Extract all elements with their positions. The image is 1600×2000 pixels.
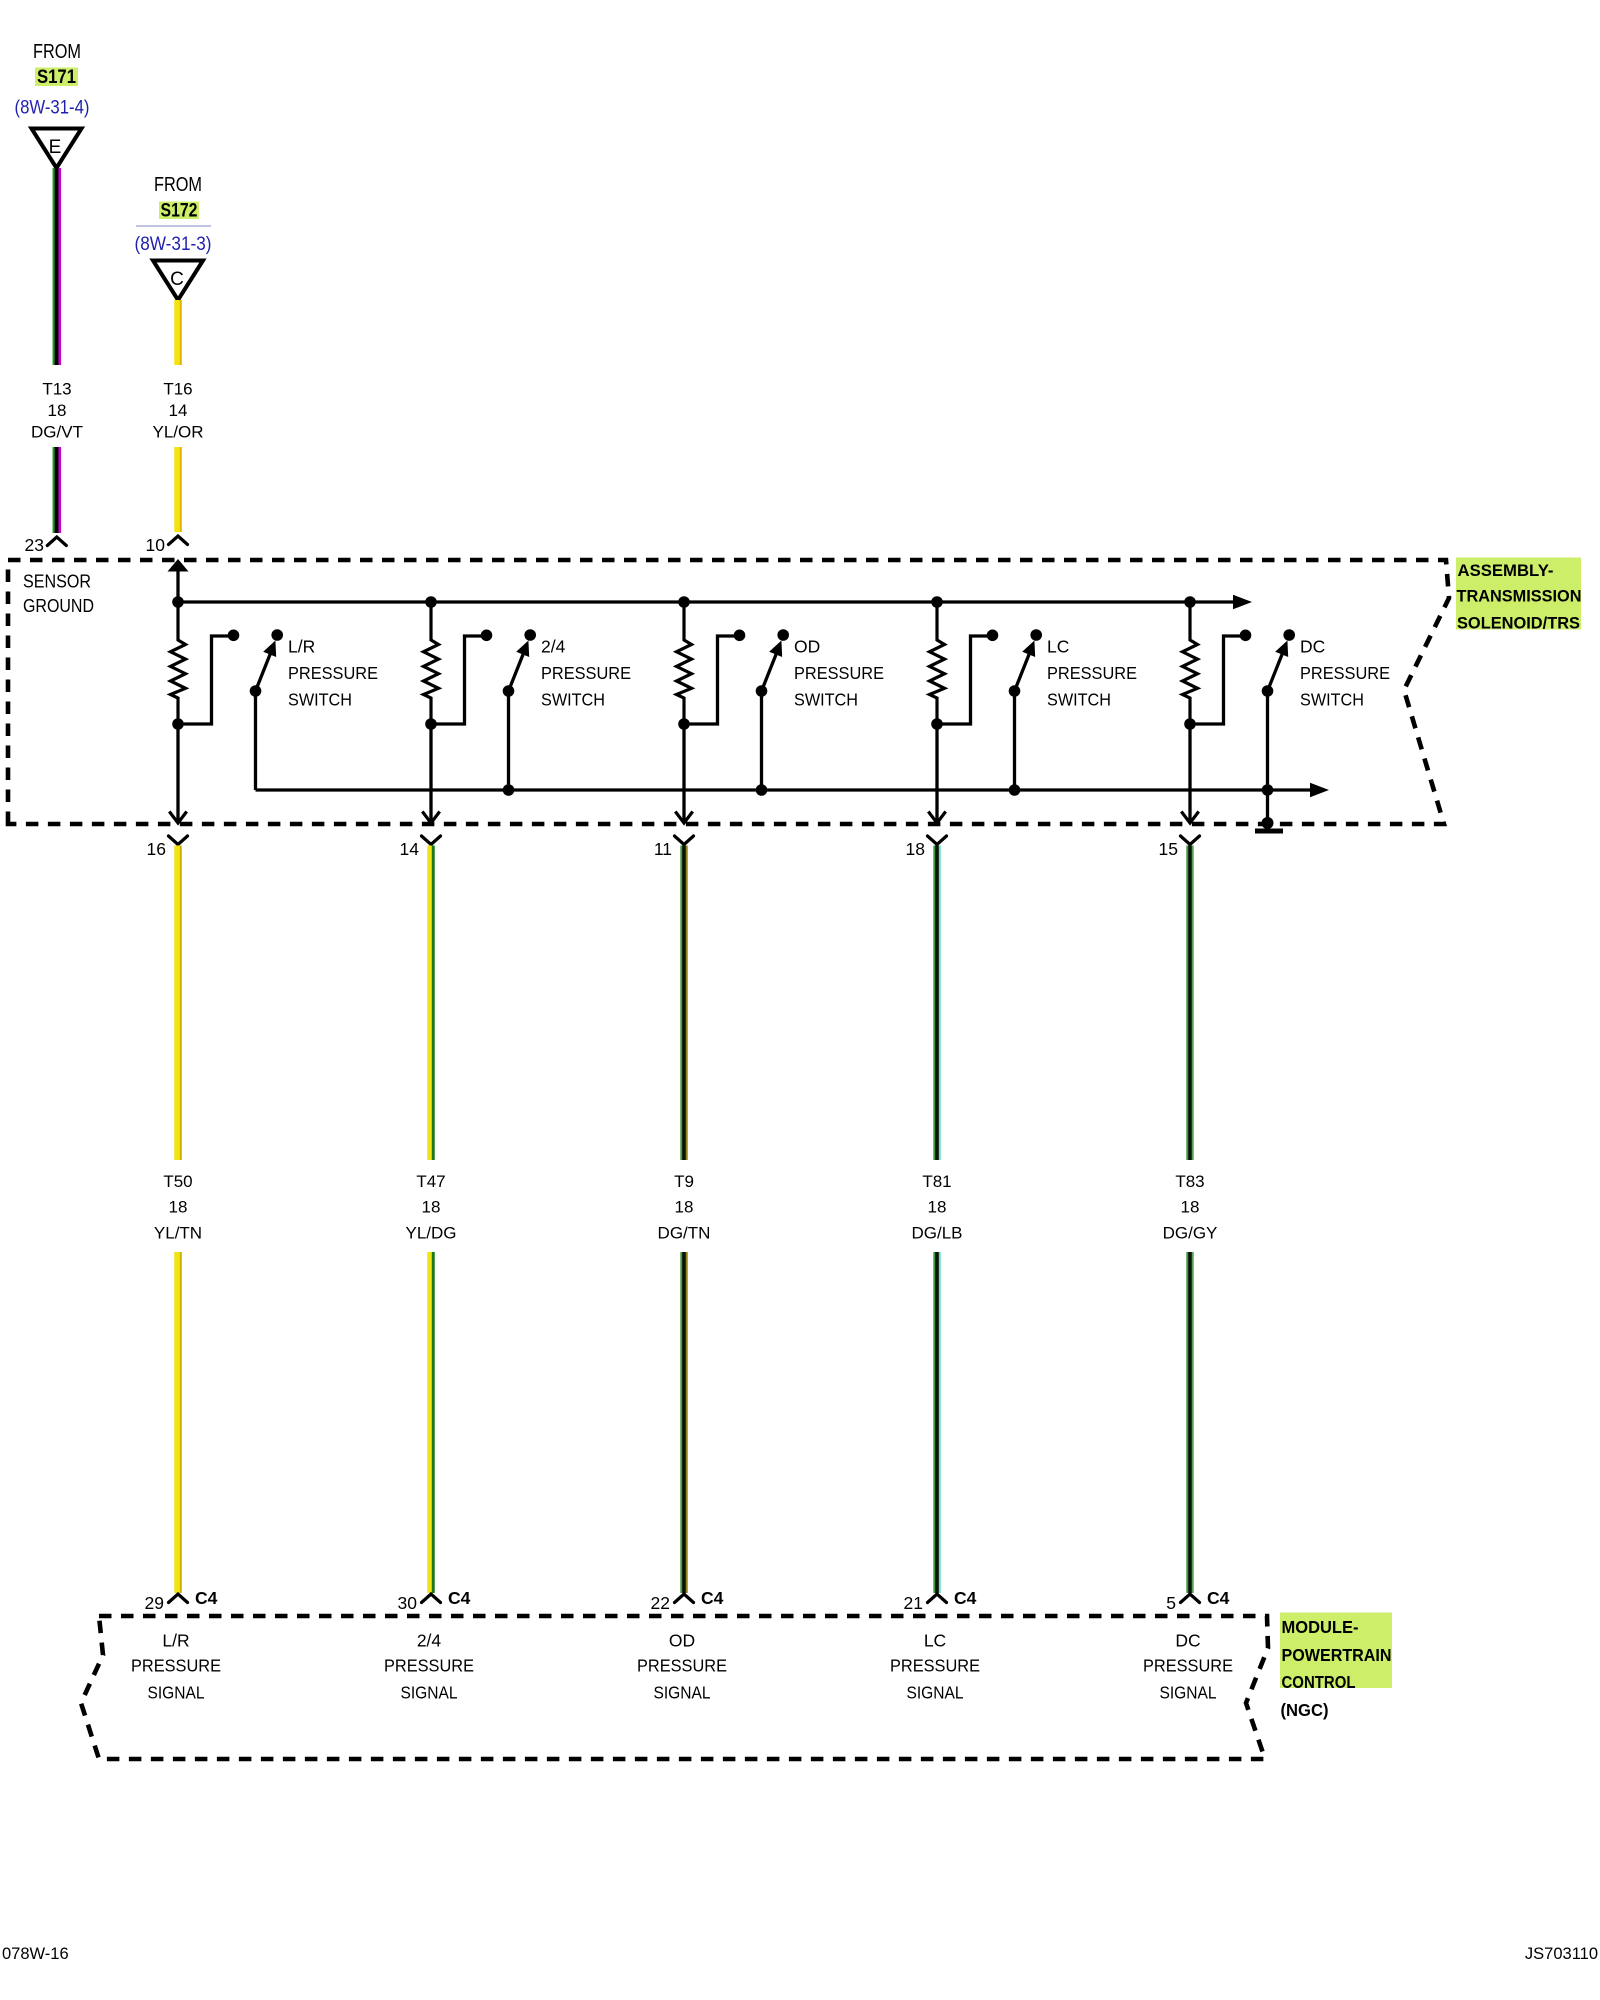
svg-text:OD: OD	[794, 637, 820, 657]
wire resistor bottom to box edge col 3 with exit arrow	[675, 724, 692, 823]
connector label C4 col 4	[954, 1588, 977, 1608]
PCM pin connector fork col 5	[1181, 1594, 1200, 1603]
svg-text:T9: T9	[674, 1172, 694, 1191]
junction node top bus col 4	[931, 596, 943, 608]
svg-text:14: 14	[400, 839, 420, 859]
svg-text:YL/TN: YL/TN	[154, 1224, 202, 1243]
pin label 21	[904, 1593, 923, 1613]
svg-text:GROUND: GROUND	[23, 595, 94, 616]
pin label 5	[1166, 1593, 1176, 1613]
svg-text:14: 14	[169, 401, 188, 420]
wire pivot to lower bus col 2	[507, 691, 510, 790]
ground bar	[1255, 829, 1283, 834]
signal label LC PRESSURE SIGNAL	[890, 1631, 980, 1703]
wire T50 YL/TN lower segment	[174, 1252, 182, 1593]
switch pivot contact col 3	[756, 685, 768, 697]
svg-text:DC: DC	[1300, 637, 1325, 657]
label OD PRESSURE SWITCH	[794, 637, 884, 710]
switch throw contact col 2	[524, 629, 536, 641]
switch pivot contact col 5	[1262, 685, 1274, 697]
switch DC PRESSURE SWITCH contact wire	[1190, 636, 1242, 724]
wire pivot to lower bus col 4	[1013, 691, 1016, 790]
svg-text:S171: S171	[37, 66, 76, 88]
junction node resistor bottom col 1	[172, 718, 184, 730]
svg-text:JS703110: JS703110	[1525, 1945, 1598, 1963]
top bus wire (sensor ground)	[178, 595, 1252, 609]
svg-text:SWITCH: SWITCH	[794, 690, 858, 710]
svg-text:SIGNAL: SIGNAL	[654, 1683, 711, 1703]
svg-text:PRESSURE: PRESSURE	[890, 1656, 980, 1676]
svg-text:SWITCH: SWITCH	[1300, 690, 1364, 710]
wire T50 YL/TN upper segment	[174, 846, 182, 1161]
svg-text:2/4: 2/4	[541, 637, 566, 657]
switch pivot contact col 2	[503, 685, 515, 697]
underline below S172	[136, 225, 211, 227]
resistor R3 (OD pressure sense)	[677, 602, 692, 724]
svg-text:PRESSURE: PRESSURE	[637, 1656, 727, 1676]
svg-text:T13: T13	[42, 380, 71, 399]
exit connector fork col 4	[928, 836, 947, 845]
svg-text:PRESSURE: PRESSURE	[541, 663, 631, 683]
reference (8W-31-3)	[135, 234, 212, 255]
svg-text:(NGC): (NGC)	[1281, 1700, 1329, 1720]
svg-text:S172: S172	[161, 200, 198, 222]
wire entry arrow into box (sensor ground feed)	[168, 559, 189, 602]
svg-text:10: 10	[146, 535, 166, 555]
svg-text:22: 22	[651, 1593, 670, 1613]
switch LC PRESSURE SWITCH contact wire	[937, 636, 989, 724]
splice S171 (highlighted)	[35, 66, 78, 88]
svg-text:PRESSURE: PRESSURE	[1300, 663, 1390, 683]
label DC PRESSURE SWITCH	[1300, 637, 1390, 710]
wire T9 DG/TN upper segment	[680, 846, 687, 1161]
svg-text:YL/OR: YL/OR	[152, 423, 203, 442]
switch arm with arrowhead col 2	[509, 641, 530, 692]
wire label T13 18 DG/VT	[31, 380, 83, 442]
svg-text:PRESSURE: PRESSURE	[1047, 663, 1137, 683]
switch throw contact col 5	[1283, 629, 1295, 641]
wire resistor bottom to box edge col 1 with exit arrow	[169, 724, 186, 823]
label L/R PRESSURE SWITCH	[288, 637, 378, 710]
svg-text:DG/VT: DG/VT	[31, 423, 83, 442]
junction node resistor bottom col 2	[425, 718, 437, 730]
resistor R2 (2/4 pressure sense)	[424, 602, 439, 724]
svg-text:21: 21	[904, 1593, 923, 1613]
dashed box assembly-transmission solenoid/TRS	[8, 560, 1449, 824]
connector triangle E	[32, 129, 82, 169]
junction node top bus col 2	[425, 596, 437, 608]
svg-text:18: 18	[928, 1198, 947, 1217]
svg-text:29: 29	[145, 1593, 164, 1613]
signal label 2/4 PRESSURE SIGNAL	[384, 1631, 474, 1703]
label LC PRESSURE SWITCH	[1047, 637, 1137, 710]
switch arm with arrowhead col 4	[1015, 641, 1036, 692]
exit connector fork col 5	[1181, 836, 1200, 845]
resistor R1 (L/R pressure sense)	[171, 602, 186, 724]
svg-text:18: 18	[675, 1198, 694, 1217]
wire T16 YL/OR lower segment	[174, 447, 182, 532]
svg-text:18: 18	[906, 839, 925, 859]
PCM pin connector fork col 3	[675, 1594, 694, 1603]
svg-text:PRESSURE: PRESSURE	[131, 1656, 221, 1676]
wire T81 DG/LB upper segment	[933, 846, 940, 1161]
pin label 15 at box exit col 5	[1159, 839, 1178, 859]
svg-text:SWITCH: SWITCH	[541, 690, 605, 710]
switch fixed contact col 1	[228, 630, 240, 642]
junction node lower bus col 5	[1262, 784, 1274, 796]
svg-text:C: C	[170, 269, 184, 290]
svg-text:C4: C4	[195, 1588, 218, 1608]
svg-text:C4: C4	[448, 1588, 471, 1608]
svg-text:18: 18	[1181, 1198, 1200, 1217]
junction node resistor bottom col 3	[678, 718, 690, 730]
wire label T47 18 YL/DG	[405, 1172, 456, 1243]
svg-text:OD: OD	[669, 1631, 695, 1651]
svg-text:T47: T47	[416, 1172, 445, 1191]
svg-text:(8W-31-4): (8W-31-4)	[15, 98, 90, 119]
dashed box module-powertrain control	[81, 1616, 1268, 1759]
exit connector fork col 2	[422, 836, 441, 845]
drawing number JS703110	[1525, 1945, 1598, 1963]
svg-text:30: 30	[398, 1593, 418, 1613]
pin label 11 at box exit col 3	[654, 839, 672, 859]
svg-text:T81: T81	[922, 1172, 951, 1191]
pin label 30	[398, 1593, 418, 1613]
svg-text:18: 18	[422, 1198, 441, 1217]
wire T47 YL/DG upper segment	[427, 846, 435, 1161]
switch arm with arrowhead col 5	[1268, 641, 1289, 692]
pin label 18 at box exit col 4	[906, 839, 925, 859]
wire label T50 18 YL/TN	[154, 1172, 202, 1243]
svg-text:PRESSURE: PRESSURE	[384, 1656, 474, 1676]
junction node lower bus col 4	[1009, 784, 1021, 796]
svg-text:SIGNAL: SIGNAL	[401, 1683, 458, 1703]
svg-text:DG/LB: DG/LB	[911, 1224, 962, 1243]
signal label DC PRESSURE SIGNAL	[1143, 1631, 1233, 1703]
wire T83 DG/GY upper segment	[1186, 846, 1193, 1161]
svg-text:FROM: FROM	[154, 174, 202, 196]
switch pivot contact col 1	[250, 685, 262, 697]
exit connector fork col 1	[169, 836, 188, 845]
svg-text:SWITCH: SWITCH	[288, 690, 352, 710]
exit connector fork col 3	[675, 836, 694, 845]
svg-text:PRESSURE: PRESSURE	[794, 663, 884, 683]
connector triangle C	[153, 261, 203, 301]
node S171 label FROM	[33, 41, 81, 63]
svg-text:SIGNAL: SIGNAL	[1160, 1683, 1217, 1703]
svg-text:DC: DC	[1175, 1631, 1200, 1651]
reference (8W-31-4)	[15, 98, 90, 119]
switch fixed contact col 5	[1240, 630, 1252, 642]
svg-text:L/R: L/R	[288, 637, 315, 657]
switch 2/4 PRESSURE SWITCH contact wire	[431, 636, 483, 724]
ground node dot	[1262, 817, 1274, 829]
switch fixed contact col 3	[734, 630, 746, 642]
connector label C4 col 3	[701, 1588, 724, 1608]
svg-text:5: 5	[1166, 1593, 1176, 1613]
switch OD PRESSURE SWITCH contact wire	[684, 636, 736, 724]
wire resistor bottom to box edge col 2 with exit arrow	[422, 724, 439, 823]
svg-text:18: 18	[48, 401, 67, 420]
pin label 23	[25, 535, 44, 555]
box label (NGC)	[1281, 1700, 1329, 1720]
svg-text:SIGNAL: SIGNAL	[907, 1683, 964, 1703]
svg-text:TRANSMISSION: TRANSMISSION	[1457, 587, 1582, 606]
svg-text:(8W-31-3): (8W-31-3)	[135, 234, 212, 255]
svg-text:YL/DG: YL/DG	[405, 1224, 456, 1243]
svg-text:078W-16: 078W-16	[2, 1945, 69, 1963]
net label SENSOR GROUND	[23, 571, 94, 617]
svg-text:CONTROL: CONTROL	[1282, 1672, 1356, 1692]
resistor R5 (DC pressure sense)	[1183, 602, 1198, 724]
switch arm with arrowhead col 1	[256, 641, 277, 692]
svg-text:POWERTRAIN: POWERTRAIN	[1282, 1645, 1392, 1665]
junction node top bus col 1	[172, 596, 184, 608]
svg-text:SWITCH: SWITCH	[1047, 690, 1111, 710]
svg-text:23: 23	[25, 535, 44, 555]
wire resistor bottom to box edge col 4 with exit arrow	[928, 724, 945, 823]
switch throw contact col 3	[777, 629, 789, 641]
svg-text:PRESSURE: PRESSURE	[1143, 1656, 1233, 1676]
wire label T9 18 DG/TN	[658, 1172, 711, 1243]
wire T47 YL/DG lower segment	[427, 1252, 435, 1593]
wire T81 DG/LB lower segment	[933, 1252, 940, 1593]
junction node lower bus col 2	[503, 784, 515, 796]
svg-text:MODULE-: MODULE-	[1282, 1617, 1359, 1637]
svg-text:E: E	[49, 137, 62, 158]
svg-text:SIGNAL: SIGNAL	[148, 1683, 205, 1703]
svg-text:SOLENOID/TRS: SOLENOID/TRS	[1457, 614, 1580, 633]
svg-text:16: 16	[147, 839, 166, 859]
sheet number 078W-16	[2, 1945, 69, 1963]
pin label 16 at box exit col 1	[147, 839, 166, 859]
svg-text:T16: T16	[163, 380, 192, 399]
switch throw contact col 1	[271, 629, 283, 641]
wire T13 DG/VT upper segment	[53, 168, 62, 365]
switch fixed contact col 4	[987, 630, 999, 642]
svg-text:DG/GY: DG/GY	[1163, 1224, 1218, 1243]
switch arm with arrowhead col 3	[762, 641, 783, 692]
svg-text:T83: T83	[1175, 1172, 1204, 1191]
svg-text:L/R: L/R	[162, 1631, 189, 1651]
wire pivot to lower bus col 5	[1266, 691, 1269, 790]
pin label 14 at box exit col 2	[400, 839, 420, 859]
resistor R4 (LC pressure sense)	[930, 602, 945, 724]
box label ASSEMBLY-TRANSMISSION SOLENOID/TRS (highlighted)	[1456, 558, 1582, 633]
svg-text:15: 15	[1159, 839, 1178, 859]
wire pivot to lower bus col 3	[760, 691, 763, 790]
connector label C4 col 5	[1207, 1588, 1230, 1608]
pin label 22	[651, 1593, 670, 1613]
wire T9 DG/TN lower segment	[680, 1252, 687, 1593]
wire resistor bottom to box edge col 5 with exit arrow	[1181, 724, 1198, 823]
signal label L/R PRESSURE SIGNAL	[131, 1631, 221, 1703]
pin label 29	[145, 1593, 164, 1613]
PCM pin connector fork col 2	[422, 1594, 441, 1603]
connector label C4 col 1	[195, 1588, 218, 1608]
junction node resistor bottom col 4	[931, 718, 943, 730]
svg-text:LC: LC	[924, 1631, 946, 1651]
box label MODULE-POWERTRAIN CONTROL (highlighted)	[1280, 1613, 1392, 1693]
wire label T81 18 DG/LB	[911, 1172, 962, 1243]
wire label T83 18 DG/GY	[1163, 1172, 1218, 1243]
pin 10 connector fork	[169, 536, 188, 545]
wire label T16 14 YL/OR	[152, 380, 203, 442]
label 2/4 PRESSURE SWITCH	[541, 637, 631, 710]
switch fixed contact col 2	[481, 630, 493, 642]
wire T16 YL/OR upper segment	[174, 300, 182, 365]
svg-text:ASSEMBLY-: ASSEMBLY-	[1458, 561, 1554, 580]
switch L/R PRESSURE SWITCH contact wire	[178, 636, 230, 724]
connector label C4 col 2	[448, 1588, 471, 1608]
switch throw contact col 4	[1030, 629, 1042, 641]
svg-text:DG/TN: DG/TN	[658, 1224, 711, 1243]
svg-text:C4: C4	[1207, 1588, 1230, 1608]
PCM pin connector fork col 4	[928, 1594, 947, 1603]
junction node top bus col 3	[678, 596, 690, 608]
wire T83 DG/GY lower segment	[1186, 1252, 1193, 1593]
node S172 label FROM	[154, 174, 202, 196]
lower bus wire (switch common)	[256, 783, 1330, 797]
switch pivot contact col 4	[1009, 685, 1021, 697]
svg-text:FROM: FROM	[33, 41, 81, 63]
pin 23 connector fork	[47, 537, 66, 546]
svg-text:T50: T50	[163, 1172, 192, 1191]
junction node lower bus col 3	[756, 784, 768, 796]
wire pivot to lower bus col 1	[254, 691, 257, 790]
pin label 10	[146, 535, 166, 555]
junction node top bus col 5	[1184, 596, 1196, 608]
signal label OD PRESSURE SIGNAL	[637, 1631, 727, 1703]
svg-text:2/4: 2/4	[417, 1631, 442, 1651]
splice S172 (highlighted)	[159, 200, 199, 222]
svg-text:LC: LC	[1047, 637, 1069, 657]
svg-text:11: 11	[654, 839, 672, 859]
svg-text:C4: C4	[701, 1588, 724, 1608]
svg-text:PRESSURE: PRESSURE	[288, 663, 378, 683]
svg-text:18: 18	[169, 1198, 188, 1217]
wire T13 DG/VT lower segment	[53, 447, 62, 533]
svg-text:C4: C4	[954, 1588, 977, 1608]
PCM pin connector fork col 1	[169, 1594, 188, 1603]
svg-text:SENSOR: SENSOR	[23, 571, 91, 592]
junction node resistor bottom col 5	[1184, 718, 1196, 730]
wire DC pivot to ground	[1266, 790, 1269, 820]
